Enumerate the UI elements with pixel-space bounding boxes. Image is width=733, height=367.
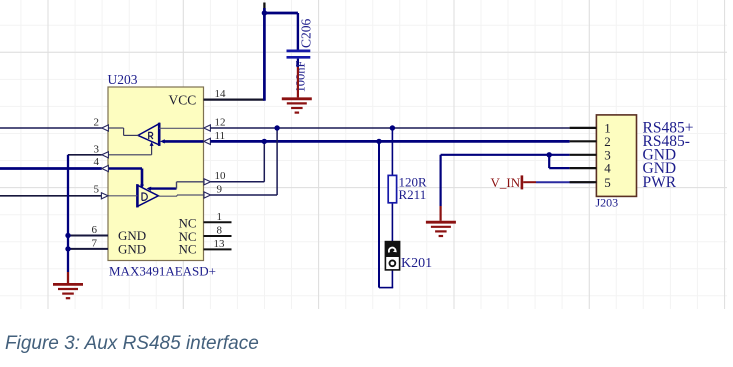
label K201	[401, 256, 432, 271]
label RS485+ (J203 pin 1)	[643, 120, 694, 137]
junction pin9/pin12 net	[274, 125, 279, 130]
svg-text:J203: J203	[596, 196, 619, 210]
wire driver output Y to pin 9	[158, 195, 203, 196]
pin 2 of U203 (wire to left edge)	[0, 117, 108, 132]
pin 13 of U203 (NC)	[204, 238, 232, 250]
svg-text:MAX3491AEASD+: MAX3491AEASD+	[109, 264, 216, 279]
junction at pin 6	[65, 233, 70, 238]
op-amp U203 body	[108, 87, 204, 261]
pin name NC (pin 8)	[179, 229, 197, 244]
junction VCC / C206	[262, 10, 267, 15]
driver amplifier D inside U203	[137, 184, 158, 207]
junction R211 top	[390, 125, 395, 130]
svg-text:1: 1	[217, 211, 223, 223]
wire pin12 to receiver input	[159, 127, 203, 129]
pin 3 of U203	[68, 143, 108, 158]
svg-text:VCC: VCC	[169, 93, 197, 108]
wire V_IN to J203 pin5	[536, 181, 595, 183]
wire net RS485+ (pin12/pin9 to J203 pin1)	[210, 127, 569, 129]
pin name GND (pin 7)	[118, 242, 146, 257]
resistor R211	[388, 175, 396, 202]
wire to C206	[263, 13, 298, 50]
label 100nF	[294, 61, 308, 93]
jumper K201	[385, 242, 399, 270]
pin 9 of U203	[204, 184, 223, 199]
wire R211 net	[379, 128, 393, 288]
svg-text:6: 6	[92, 224, 98, 236]
label U203	[108, 72, 138, 87]
svg-text:GND: GND	[118, 242, 146, 257]
svg-text:14: 14	[215, 88, 227, 100]
junction J203 pin3/pin4	[547, 152, 552, 157]
wire pin3 enable to receiver	[108, 142, 154, 155]
pin 12 of U203	[204, 116, 226, 131]
svg-text:13: 13	[214, 238, 226, 250]
pin 6 of U203	[68, 224, 108, 236]
pin 14 of U203 (VCC)	[204, 88, 265, 100]
wire pin10 branch	[210, 141, 264, 181]
pin name VCC	[169, 93, 197, 108]
wire pin3/6/7 to ground	[67, 155, 69, 283]
svg-text:12: 12	[215, 116, 226, 128]
ground symbol left	[53, 284, 83, 298]
pin name GND (pin 6)	[118, 228, 146, 243]
pin 5 of J203	[570, 175, 611, 190]
pin 8 of U203 (NC)	[204, 225, 232, 237]
wire pin9 branch	[210, 128, 277, 195]
pin 1 of U203 (NC)	[204, 211, 232, 223]
svg-text:NC: NC	[179, 242, 197, 257]
svg-text:10: 10	[215, 170, 227, 182]
wire pin11 to receiver input (with arrow)	[160, 139, 204, 143]
pin 3 of J203	[570, 147, 611, 162]
pin name NC (pin 13)	[179, 242, 197, 257]
pin 5 of U203 (wire to left edge)	[0, 183, 108, 199]
svg-text:U203: U203	[108, 72, 138, 87]
pin name NC (pin 1)	[179, 215, 197, 230]
svg-text:R211: R211	[399, 187, 427, 202]
capacitor C206	[287, 51, 311, 67]
pin 11 of U203	[204, 130, 225, 145]
ground symbol at C206	[282, 99, 312, 113]
wire pin4 enable to driver	[108, 169, 144, 189]
power port V_IN	[491, 175, 537, 190]
pin 1 of J203	[570, 121, 611, 136]
label GND (J203 pin 4)	[643, 160, 677, 177]
svg-text:4: 4	[94, 156, 100, 168]
wire receiver output to pin 2	[108, 128, 139, 135]
pin 4 of J203	[570, 161, 612, 176]
svg-text:5: 5	[94, 183, 100, 195]
wire net RS485- (pin11/pin10 to J203 pin2)	[210, 140, 569, 143]
label RS485- (J203 pin 2)	[643, 133, 690, 150]
pin 7 of U203	[68, 237, 108, 249]
label R211	[399, 187, 427, 202]
label PWR (J203 pin 5)	[643, 174, 677, 191]
svg-text:V_IN: V_IN	[491, 175, 521, 190]
pin 2 of J203	[570, 134, 611, 149]
svg-text:8: 8	[217, 225, 223, 237]
svg-text:3: 3	[94, 143, 100, 155]
svg-text:C206: C206	[299, 18, 314, 48]
receiver amplifier R inside U203	[138, 123, 159, 146]
junction at pin 7	[65, 246, 70, 251]
wire driver output Z to pin 10	[147, 182, 204, 191]
pin 4 of U203 (wire to left edge)	[0, 156, 108, 171]
label MAX3491AEASD+	[109, 264, 216, 279]
svg-text:100nF: 100nF	[294, 61, 308, 93]
wire VCC vertical	[263, 3, 265, 101]
svg-text:9: 9	[217, 184, 223, 196]
label C206	[299, 18, 314, 48]
svg-text:7: 7	[92, 237, 98, 249]
pin 10 of U203	[204, 170, 226, 185]
wire J203 pin4 branch	[549, 155, 569, 168]
svg-text:PWR: PWR	[643, 174, 677, 191]
wire C206 to ground	[297, 67, 299, 97]
caption Figure 3	[5, 333, 259, 355]
junction R211 net / RS485-	[376, 139, 381, 144]
wire J203 GND net	[441, 155, 570, 221]
label GND (J203 pin 3)	[643, 147, 677, 164]
ground symbol middle	[426, 222, 456, 236]
junction pin10/pin11 net	[262, 139, 267, 144]
wire pin5 to driver input	[108, 195, 137, 197]
connector J203 body	[596, 115, 636, 196]
svg-text:2: 2	[94, 117, 100, 129]
svg-text:5: 5	[604, 175, 611, 190]
svg-text:K201: K201	[401, 256, 432, 271]
label J203	[596, 196, 619, 210]
svg-text:4: 4	[604, 161, 611, 176]
label 120R	[399, 175, 428, 190]
